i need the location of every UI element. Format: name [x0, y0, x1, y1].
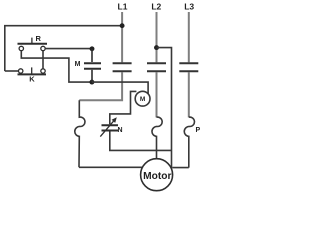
wire L1 feeder upper — [121, 12, 123, 62]
svg-text:L3: L3 — [184, 1, 194, 11]
wire from R right terminal to contact M top — [45, 48, 92, 50]
node junction dot on L2 upper — [154, 45, 159, 50]
contactor main contact on L1 — [113, 63, 132, 71]
arrow of variable capacitor N — [100, 117, 117, 136]
svg-text:L2: L2 — [151, 1, 161, 11]
wire from R left terminal down and right — [21, 51, 92, 82]
svg-text:M: M — [140, 96, 145, 103]
wire from coil M left terminal to capacitor N — [110, 91, 137, 124]
svg-text:M: M — [75, 61, 81, 68]
wire L2 feeder lower — [156, 72, 158, 117]
wire bottom rail to motor left — [79, 166, 143, 168]
contactor main contact on L3 — [179, 63, 198, 71]
wire L2 feeder upper — [156, 12, 158, 62]
wire L2 branch to motor upper right — [157, 48, 172, 169]
node junction dot on L1 — [120, 23, 125, 28]
contact M (holding contact) — [84, 49, 101, 82]
overload heater on L2 leg — [152, 117, 162, 159]
wire from P leg to motor right — [172, 167, 189, 169]
node junction dot at contact M bottom — [89, 80, 94, 85]
overload heater on L1 leg — [75, 100, 85, 167]
motor (main motor) — [141, 159, 173, 191]
svg-text:Motor: Motor — [143, 171, 171, 182]
svg-text:K: K — [29, 75, 35, 84]
contactor main contact on L2 — [147, 63, 166, 71]
svg-text:L1: L1 — [118, 1, 128, 11]
wire from capacitor N bottom to L2 branch node — [110, 132, 172, 151]
node junction dot at contact M top — [90, 46, 95, 51]
svg-text:N: N — [118, 127, 123, 134]
overload heater P on L3 leg — [184, 117, 194, 167]
coil M (contactor coil) — [135, 91, 150, 106]
capacitor N (variable) — [102, 125, 119, 130]
wire L3 feeder upper — [188, 12, 190, 62]
wire from M bottom junction to coil M — [92, 82, 148, 94]
wire L1 feeder lower — [79, 72, 122, 100]
wire linking R right terminal to K right terminal — [42, 51, 44, 69]
wire L3 feeder lower — [188, 72, 190, 117]
svg-text:P: P — [196, 127, 201, 134]
wire left rail to contact K — [5, 70, 18, 72]
contact K (normally open) — [18, 67, 47, 74]
wire top control rail from left rail to L1 — [5, 26, 122, 71]
svg-text:R: R — [36, 34, 42, 43]
contact R (normally closed) — [18, 38, 48, 51]
